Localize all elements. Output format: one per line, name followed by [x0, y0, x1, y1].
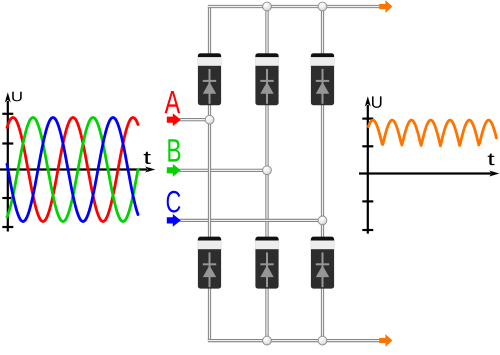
junction top bus / column 2 — [263, 2, 272, 11]
diode D3 — [255, 53, 278, 105]
diode D4 — [255, 237, 278, 289]
right plot U axis ticks — [362, 119, 373, 230]
right plot U label — [372, 96, 382, 108]
diode D5 — [311, 53, 334, 105]
diode D6 — [311, 237, 334, 289]
left plot U axis — [5, 92, 11, 231]
diode D2 — [198, 237, 221, 289]
junction top bus / column 3 — [318, 2, 327, 11]
right plot U axis — [365, 96, 371, 233]
output arrow + (top, orange) — [379, 0, 392, 13]
node A label — [165, 91, 181, 113]
right plot t label — [488, 154, 495, 166]
junction phase C / column 3 — [318, 216, 327, 225]
diode D1 — [198, 53, 221, 105]
wire phase C feed — [180, 219, 323, 222]
wire phase B feed — [180, 169, 268, 172]
wire column 1 — [208, 7, 211, 341]
junction phase A / column 1 — [205, 115, 214, 124]
junction bottom bus / column 3 — [318, 336, 327, 345]
wire column 2 — [265, 5, 268, 343]
wire bottom bus (−) — [208, 339, 380, 342]
rectified output curve (orange) — [368, 120, 496, 146]
phase B sine curve (green) — [7, 118, 138, 222]
phase A sine curve (red) — [7, 118, 138, 222]
left plot t axis — [0, 167, 155, 173]
junction bottom bus / column 2 — [263, 336, 272, 345]
node B label — [168, 139, 180, 161]
phase C sine curve (blue) — [7, 118, 138, 222]
output arrow − (bottom, orange) — [379, 334, 392, 347]
wire phase A feed — [180, 118, 210, 121]
wire column 3 — [321, 5, 324, 343]
left plot t label — [144, 152, 151, 164]
phase C input arrow — [167, 214, 181, 227]
left plot U axis ticks — [2, 114, 13, 227]
phase B input arrow — [167, 164, 181, 177]
phase A input arrow — [167, 113, 181, 126]
right plot t axis — [359, 171, 499, 177]
node C label — [167, 191, 181, 213]
wire top bus (+) — [208, 5, 380, 8]
left plot U label — [12, 92, 22, 102]
junction phase B / column 2 — [263, 166, 272, 175]
